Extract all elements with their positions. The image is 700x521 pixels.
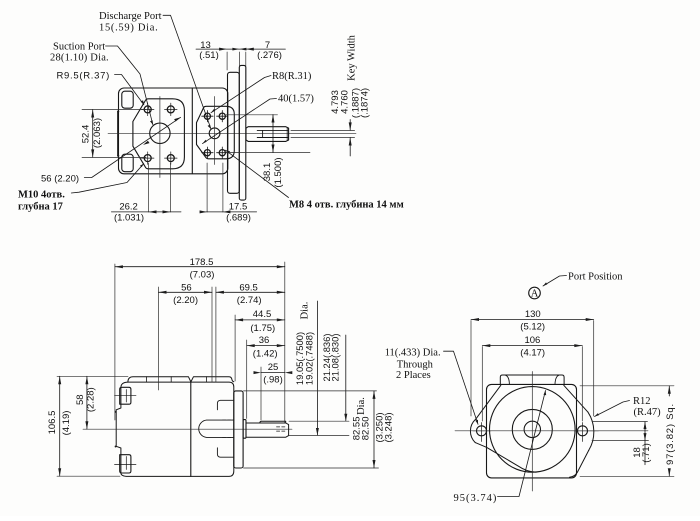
svg-text:(3.248): (3.248) bbox=[384, 412, 395, 442]
side view left face bumps bbox=[115, 411, 117, 448]
svg-text:69.5: 69.5 bbox=[239, 282, 258, 293]
bolt hole right 11 dia bbox=[574, 423, 599, 442]
svg-text:(1.42): (1.42) bbox=[253, 349, 278, 360]
dimension 25 (.98) bbox=[254, 367, 293, 420]
M10 bolt hole bottom-left bbox=[141, 152, 154, 165]
mounting plate rear bbox=[239, 65, 246, 200]
mounting plate front bbox=[228, 72, 240, 193]
svg-text:A: A bbox=[531, 289, 539, 300]
svg-text:(5.12): (5.12) bbox=[520, 321, 545, 332]
svg-text:М8 4 отв. глубина 14 мм: М8 4 отв. глубина 14 мм bbox=[289, 200, 404, 211]
svg-text:130: 130 bbox=[525, 309, 541, 320]
svg-text:2 Places: 2 Places bbox=[396, 370, 431, 381]
hidden bore dashes behind plate bbox=[223, 420, 234, 437]
bolt hole left 11 dia bbox=[473, 423, 491, 442]
svg-text:Suction Port: Suction Port bbox=[53, 42, 105, 53]
svg-text:21.08(.830): 21.08(.830) bbox=[329, 334, 340, 382]
dimension 17.5 (.689) bbox=[200, 163, 257, 213]
shaft boss stadium bbox=[199, 420, 234, 437]
svg-text:(.276): (.276) bbox=[257, 50, 282, 61]
callout R8(R.31) bbox=[272, 71, 312, 82]
M10 bolt hole top-right bbox=[165, 103, 178, 116]
svg-text:(.689): (.689) bbox=[226, 213, 251, 224]
dimension 106 (4.17) bbox=[482, 344, 582, 421]
cover bore step bottom bbox=[217, 448, 233, 457]
side view mounting lug bottom with cross bbox=[115, 455, 137, 473]
dimension 38.1 (1.500) bbox=[226, 115, 310, 153]
svg-text:36: 36 bbox=[259, 335, 270, 346]
callout Suction Port 28(1.10) Dia. bbox=[50, 42, 109, 64]
svg-text:Port Position: Port Position bbox=[568, 272, 623, 283]
svg-text:R9.5(R.37): R9.5(R.37) bbox=[57, 70, 110, 81]
dimension 18 (.71) bbox=[592, 422, 649, 465]
top cap boss bbox=[500, 375, 564, 385]
M10 bolt hole bottom-right bbox=[165, 152, 178, 165]
svg-text:R8(R.31): R8(R.31) bbox=[272, 71, 312, 82]
svg-text:Through: Through bbox=[397, 359, 434, 370]
svg-text:106: 106 bbox=[524, 335, 540, 346]
svg-text:26.2: 26.2 bbox=[119, 202, 138, 213]
callout M10 4otv. glubna 17 bbox=[18, 190, 65, 213]
callout R12 (R.47) bbox=[633, 396, 661, 418]
svg-text:15(.59) Dia.: 15(.59) Dia. bbox=[99, 23, 158, 34]
svg-text:25: 25 bbox=[268, 362, 279, 373]
M8 bolt hole bottom-left bbox=[202, 147, 213, 158]
dimension 36 (1.42) bbox=[247, 340, 285, 419]
svg-text:28(1.10) Dia.: 28(1.10) Dia. bbox=[50, 53, 109, 64]
left face tab bbox=[117, 110, 119, 156]
svg-text:(2.063): (2.063) bbox=[92, 118, 103, 148]
svg-text:97(3.82) Sq.: 97(3.82) Sq. bbox=[665, 403, 676, 465]
svg-text:Dia.: Dia. bbox=[356, 397, 367, 415]
svg-text:R12: R12 bbox=[633, 396, 651, 407]
cover bore step top bbox=[217, 400, 233, 410]
dimension 26.2 (1.031) bbox=[111, 163, 181, 213]
key width dimension 4.793/4.760 bbox=[291, 120, 355, 157]
dimension 130 (5.12) bbox=[471, 318, 594, 416]
svg-text:(4.19): (4.19) bbox=[61, 411, 72, 436]
dimension 82.55/82.50 Dia. bbox=[244, 391, 379, 468]
svg-text:глубна 17: глубна 17 bbox=[18, 202, 63, 213]
svg-text:(4.17): (4.17) bbox=[520, 347, 545, 358]
discharge port circle bbox=[209, 128, 220, 139]
svg-text:(1.75): (1.75) bbox=[250, 323, 275, 334]
shaft shoulder bbox=[243, 420, 246, 439]
svg-text:(R.47): (R.47) bbox=[634, 407, 662, 418]
callout 11(.433) Dia. Through 2 Places bbox=[385, 347, 441, 381]
rotated shaft dimension texts 19.05 / 21.24 bbox=[294, 302, 340, 385]
callout Discharge Port 15(.59) Dia. bbox=[99, 11, 162, 34]
svg-text:(2.74): (2.74) bbox=[237, 295, 262, 306]
dimension 56 (2.20) side view bbox=[159, 287, 285, 390]
mounting notch bottom-left bbox=[122, 154, 133, 172]
svg-text:Dia.: Dia. bbox=[300, 302, 311, 320]
square flange 97 bbox=[487, 384, 577, 478]
callout M8 4 otv. glubina 14 mm bbox=[289, 200, 404, 211]
shaft dimension extension lines and pointers bbox=[289, 301, 349, 436]
suction flange vertical centerline bbox=[159, 97, 161, 178]
svg-text:106.5: 106.5 bbox=[47, 411, 58, 435]
svg-text:52.4: 52.4 bbox=[80, 125, 91, 144]
horizontal centerline (top view) bbox=[108, 132, 356, 134]
dimension 44.5 (1.75) bbox=[235, 315, 285, 381]
dimension 13 (.51) / 7 (.276) bbox=[196, 48, 285, 123]
dimension 52.4 (2.063) bbox=[82, 110, 146, 158]
body parting line (top view) bbox=[191, 88, 193, 174]
svg-text:(7.03): (7.03) bbox=[190, 269, 215, 280]
mounting notch top-left bbox=[122, 91, 133, 108]
svg-text:Discharge Port: Discharge Port bbox=[99, 11, 162, 22]
svg-text:178.5: 178.5 bbox=[190, 257, 214, 268]
shaft circle bbox=[524, 421, 540, 437]
flange centerlines bbox=[455, 372, 648, 492]
svg-text:Key Width: Key Width bbox=[346, 34, 357, 81]
side view centerline bbox=[83, 428, 292, 430]
dimension 106.5 (4.19) bbox=[57, 376, 128, 476]
dimension 97 (3.82) Sq. bbox=[580, 386, 674, 477]
svg-text:(1.500): (1.500) bbox=[273, 157, 284, 187]
M10 bolt hole top-left bbox=[141, 103, 154, 116]
discharge flange outline bbox=[197, 106, 235, 159]
svg-text:(1.031): (1.031) bbox=[114, 213, 144, 224]
callout R9.5(R.37) bbox=[57, 70, 110, 81]
hidden key lines (dashed) bbox=[277, 427, 287, 431]
side view mounting lug top with cross bbox=[115, 387, 137, 404]
svg-text:4.760: 4.760 bbox=[340, 90, 351, 114]
svg-text:56: 56 bbox=[181, 282, 192, 293]
M8 bolt hole bottom-right bbox=[217, 147, 228, 158]
svg-text:(.98): (.98) bbox=[263, 374, 283, 385]
shaft key (side view) bbox=[260, 421, 286, 423]
svg-text:95(3.74): 95(3.74) bbox=[454, 493, 498, 504]
svg-text:58: 58 bbox=[75, 394, 86, 405]
M8 bolt hole top-left bbox=[202, 111, 213, 122]
pilot circle 95 bbox=[490, 387, 576, 473]
port position marker A bbox=[529, 287, 541, 299]
svg-text:17.5: 17.5 bbox=[229, 202, 248, 213]
svg-text:(2.20): (2.20) bbox=[173, 295, 198, 306]
side view top raised band with port bosses bbox=[128, 377, 234, 382]
side view body parting line bbox=[190, 382, 192, 476]
svg-text:11(.433) Dia.: 11(.433) Dia. bbox=[385, 347, 441, 358]
svg-text:56 (2.20): 56 (2.20) bbox=[41, 173, 79, 184]
pump body (top view) bbox=[119, 88, 228, 174]
callout 56 (2.20) with bolt diagonal bbox=[41, 173, 79, 184]
suction port circle bbox=[150, 123, 170, 143]
body silhouette diagonals and ears bbox=[470, 385, 593, 477]
side view body outline bbox=[116, 382, 234, 476]
shaft (side view) bbox=[246, 423, 289, 437]
svg-text:40(1.57): 40(1.57) bbox=[278, 94, 314, 105]
dimension 58 (2.28) bbox=[85, 376, 88, 429]
svg-text:44.5: 44.5 bbox=[253, 309, 272, 320]
svg-text:19.02(.7488): 19.02(.7488) bbox=[303, 332, 314, 385]
svg-text:82.50: 82.50 bbox=[361, 417, 372, 441]
svg-text:M10 4отв.: M10 4отв. bbox=[18, 190, 65, 201]
discharge flange vertical centerline bbox=[214, 97, 216, 165]
bearing circle bbox=[512, 409, 552, 449]
M8 bolt hole top-right bbox=[217, 111, 228, 122]
shaft (top view) bbox=[246, 127, 289, 142]
svg-text:(.51): (.51) bbox=[199, 50, 219, 61]
svg-text:(2.28): (2.28) bbox=[86, 387, 97, 412]
shaft keyway lines bbox=[257, 130, 288, 137]
suction flange outline bbox=[133, 99, 185, 169]
svg-text:(.1874): (.1874) bbox=[360, 88, 371, 118]
callout 95(3.74) bbox=[454, 493, 498, 504]
svg-text:(.71): (.71) bbox=[641, 443, 652, 463]
callout 40(1.57) with diagonal through discharge flange bbox=[278, 94, 314, 105]
callout Port Position bbox=[568, 272, 623, 283]
dimension 178.5 (7.03) bbox=[115, 262, 285, 423]
pilot boss plate bbox=[234, 391, 243, 468]
